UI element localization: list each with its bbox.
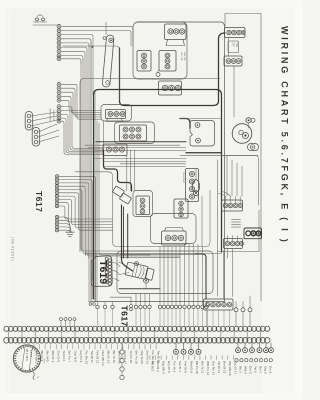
svg-text:Wht Br 4: Wht Br 4 bbox=[51, 351, 55, 363]
connector column D bbox=[55, 175, 58, 208]
terminal block TB2 bbox=[137, 51, 151, 72]
svg-text:Brn Bl 15: Brn Bl 15 bbox=[223, 361, 227, 374]
svg-text:Blu 3: Blu 3 bbox=[238, 366, 242, 373]
motor tab bottom bbox=[248, 144, 259, 151]
svg-text:Org 8: Org 8 bbox=[263, 366, 267, 374]
svg-text:Tan Br 7: Tan Br 7 bbox=[178, 361, 182, 373]
wire bus x97 bbox=[96, 121, 98, 301]
chain top stubs bbox=[60, 318, 77, 327]
svg-text:Yel Bl 2: Yel Bl 2 bbox=[150, 361, 154, 371]
svg-text:Org Wh 16: Org Wh 16 bbox=[228, 361, 232, 376]
wire y147 run bbox=[88, 147, 186, 149]
wire motor drop bbox=[248, 123, 250, 128]
svg-text:Org Ta 20: Org Ta 20 bbox=[140, 351, 144, 364]
svg-text:Pnk Or 8: Pnk Or 8 bbox=[184, 361, 188, 373]
terminal block TB14 bbox=[218, 192, 243, 212]
svg-text:05 1 38 9: 05 1 38 9 bbox=[25, 349, 29, 361]
wire staircase dark bbox=[104, 150, 132, 191]
coil chain row 1 bbox=[4, 326, 270, 331]
svg-text:( 0 8 - 9 1 0 0 1 ): ( 0 8 - 9 1 0 0 1 ) bbox=[11, 237, 15, 261]
connector column C bbox=[57, 105, 61, 123]
svg-text:T617: T617 bbox=[120, 306, 130, 327]
terminal block TB12 bbox=[174, 199, 188, 218]
wire y158 run bbox=[95, 158, 186, 160]
tag T619 outline bbox=[91, 256, 112, 287]
svg-text:Blk Pu 10: Blk Pu 10 bbox=[195, 361, 199, 374]
wire y161 run bbox=[103, 160, 186, 162]
terminal block TB13 bbox=[162, 228, 187, 246]
svg-text:R1B 4TB: R1B 4TB bbox=[183, 52, 185, 61]
label row far right bbox=[238, 366, 272, 374]
svg-text:Gry Gr 17: Gry Gr 17 bbox=[234, 361, 238, 375]
terminal block TB3 bbox=[159, 51, 176, 72]
svg-text:Grn Re 13: Grn Re 13 bbox=[211, 361, 215, 375]
wire dark elbow TB17 bbox=[195, 254, 206, 299]
wire dark into machine bbox=[122, 205, 133, 271]
svg-text:Grn 5: Grn 5 bbox=[248, 366, 252, 374]
connector column A (T617 pins) bbox=[57, 24, 61, 60]
svg-text:Gry Gr 5: Gry Gr 5 bbox=[167, 361, 171, 373]
svg-text:WHITE WIRE: WHITE WIRE bbox=[49, 109, 51, 122]
relay K2 tilted bbox=[119, 193, 131, 204]
machine drain circle bbox=[144, 278, 149, 283]
svg-text:Brn Pu 7: Brn Pu 7 bbox=[68, 351, 72, 363]
module box M3 bbox=[133, 191, 153, 217]
strip terminals row bbox=[96, 302, 208, 309]
relay K1 tilted bbox=[112, 186, 124, 197]
wire bottom collector bbox=[91, 301, 225, 303]
junction dot bbox=[92, 46, 94, 48]
wire y145 run bbox=[85, 144, 180, 146]
motor M big circle bbox=[232, 124, 252, 144]
stamp hook mark bbox=[33, 372, 34, 380]
wire bus x89 bbox=[88, 46, 90, 301]
connector column B bbox=[57, 82, 61, 102]
svg-text:Yel Bl 14: Yel Bl 14 bbox=[217, 361, 221, 373]
wire right cluster bottom bbox=[218, 160, 260, 296]
module box M1 bbox=[101, 105, 132, 122]
terminal block TB4 bbox=[159, 81, 182, 95]
svg-text:Pur Re 10: Pur Re 10 bbox=[84, 351, 88, 365]
terminal block TB1 bbox=[165, 24, 187, 46]
inspection stamp bbox=[13, 345, 40, 372]
wire y150 run bbox=[95, 149, 186, 151]
wire machine drops bbox=[136, 294, 150, 302]
wire y155 run bbox=[180, 155, 259, 205]
wire bus x91 bbox=[90, 42, 92, 301]
svg-text:Tan Bl 11: Tan Bl 11 bbox=[90, 351, 94, 364]
machine assembly tilted bbox=[125, 262, 155, 281]
wire top lead bbox=[33, 24, 57, 26]
svg-text:Org Wh 4: Org Wh 4 bbox=[162, 361, 166, 374]
plug connector P2 bbox=[32, 128, 40, 147]
strip pair x131 bbox=[130, 297, 133, 311]
svg-text:Wht Br 16: Wht Br 16 bbox=[118, 351, 122, 365]
svg-text:Wht Pn 12: Wht Pn 12 bbox=[206, 361, 210, 375]
module box B2 edges bbox=[113, 190, 211, 247]
drawing border frame bbox=[225, 14, 261, 302]
hanging terminals bbox=[174, 343, 274, 354]
chain links bbox=[9, 331, 261, 337]
connector column E bbox=[55, 215, 58, 231]
label tiny rows bbox=[232, 220, 241, 228]
terminal block TB15 dark bbox=[244, 228, 262, 239]
wire y163 run bbox=[120, 163, 186, 165]
wire y155 right bbox=[222, 155, 259, 157]
coil chain row 2 bbox=[4, 338, 270, 344]
svg-text:Red Wh 1: Red Wh 1 bbox=[34, 351, 38, 365]
terminal block TB6 bbox=[224, 56, 242, 66]
wire y118 run bbox=[180, 118, 222, 120]
terminal block TB9 bbox=[103, 144, 127, 156]
wire TB16 drop bbox=[228, 249, 233, 297]
wire y166 run bbox=[104, 166, 186, 168]
solenoid teardrop bbox=[192, 180, 199, 196]
wire M2 drops bbox=[127, 150, 135, 191]
svg-text:Red Wh 13: Red Wh 13 bbox=[101, 351, 105, 366]
wire B2 drops bbox=[160, 247, 180, 302]
svg-text:Red Gr 9: Red Gr 9 bbox=[189, 361, 193, 374]
machine top circle bbox=[135, 262, 139, 266]
terminal block TB10 bbox=[136, 196, 150, 215]
svg-text:Gry Pn 21: Gry Pn 21 bbox=[145, 351, 149, 365]
tag chain circles bbox=[105, 257, 111, 285]
wire top box bus bbox=[137, 22, 225, 302]
wire strap to top bbox=[105, 22, 107, 35]
wire dark x127 bbox=[127, 214, 129, 258]
wire dark y141 bbox=[96, 141, 186, 143]
wire fan from column C bbox=[61, 107, 103, 155]
switch S1 top bbox=[34, 15, 48, 23]
svg-text:Wht 4: Wht 4 bbox=[243, 366, 247, 374]
wire fan from column B bbox=[61, 84, 101, 119]
wire TB5 drop bbox=[120, 33, 226, 106]
wire plug leads bbox=[31, 112, 59, 142]
wire right verticals bbox=[202, 156, 242, 247]
wire TB5-TB6 link bbox=[228, 38, 230, 57]
mounting plate PL1 bbox=[190, 121, 215, 147]
tag lead curves bbox=[112, 262, 121, 281]
fuse strap F1 bbox=[102, 35, 114, 87]
frame inner vertical bbox=[224, 14, 226, 27]
wire right drops bbox=[203, 247, 224, 302]
svg-text:Brn Pu 19: Brn Pu 19 bbox=[134, 351, 138, 365]
wire bus x103 bbox=[103, 121, 105, 150]
motor tab top bbox=[246, 118, 255, 123]
wire into strip bbox=[110, 296, 131, 298]
terminal block TB5 bbox=[225, 28, 246, 38]
svg-text:Org Ta 8: Org Ta 8 bbox=[73, 351, 77, 363]
wire box horiz 1 bbox=[120, 253, 196, 255]
wire dark y152 bbox=[186, 152, 222, 154]
svg-text:T617: T617 bbox=[34, 191, 44, 213]
svg-text:Yel 6: Yel 6 bbox=[253, 366, 257, 373]
wire loop R2 thick bbox=[94, 90, 222, 300]
wire fan column E to ground bbox=[59, 217, 72, 232]
ground symbol bbox=[66, 226, 74, 237]
module box top bbox=[133, 22, 187, 79]
wire teardrop lead bbox=[195, 168, 197, 180]
svg-text:WIRING CHART 5.6.7FGK, E ( I ): WIRING CHART 5.6.7FGK, E ( I ) bbox=[279, 26, 289, 245]
machine lead curves bbox=[119, 262, 130, 275]
fuse box SAF bbox=[228, 41, 239, 53]
module box M2 bbox=[115, 122, 155, 144]
svg-text:Yel Gr 18: Yel Gr 18 bbox=[129, 351, 133, 364]
pilot lamp DS1 bbox=[156, 73, 160, 77]
svg-text:Grn Or 17: Grn Or 17 bbox=[123, 351, 127, 365]
svg-text:SAF: SAF bbox=[232, 43, 235, 48]
terminal block TB7 bbox=[106, 110, 126, 122]
TB17 chain stems bbox=[208, 310, 230, 326]
svg-text:Gry Pn 9: Gry Pn 9 bbox=[79, 351, 83, 363]
wire bus x95 bbox=[94, 92, 96, 301]
wire box horiz 2 bbox=[120, 256, 180, 258]
right drops beyond strip bbox=[234, 296, 252, 326]
wire bus x99 bbox=[99, 123, 150, 255]
wire y171 run bbox=[75, 172, 113, 196]
wire bus x87 bbox=[87, 51, 180, 256]
module box machine bbox=[117, 251, 213, 294]
wire loop R1 bbox=[80, 79, 220, 253]
terminal block TB11 bbox=[186, 169, 199, 202]
label T619 underline bbox=[92, 261, 94, 281]
svg-text:TB4 2TB: TB4 2TB bbox=[180, 52, 182, 61]
svg-text:Pnk Bl 12: Pnk Bl 12 bbox=[95, 351, 99, 364]
wire dark pair bbox=[123, 207, 125, 258]
wire bus x83 bbox=[83, 59, 194, 254]
strip to chain stems bbox=[98, 309, 207, 327]
svg-text:0 4 4 1: 0 4 4 1 bbox=[29, 350, 32, 358]
svg-text:Brn 7: Brn 7 bbox=[258, 366, 262, 374]
hanging string x122 bbox=[120, 343, 124, 380]
terminal block TB17 bbox=[204, 299, 234, 310]
svg-text:Gry 9: Gry 9 bbox=[268, 366, 272, 374]
wire colA x93 drop bbox=[92, 39, 94, 95]
wire fan from column D bbox=[59, 176, 113, 301]
tiny circle row right bbox=[235, 359, 273, 362]
wire B3 drops bbox=[185, 244, 199, 302]
module box B3 bbox=[151, 214, 197, 244]
svg-text:Blu Ye 15: Blu Ye 15 bbox=[112, 351, 116, 364]
wire y46 run bbox=[63, 46, 120, 100]
wire bus x85 bbox=[85, 55, 222, 254]
svg-text:TO MOTOR: TO MOTOR bbox=[52, 110, 54, 122]
svg-text:Pur Ye 6: Pur Ye 6 bbox=[173, 361, 177, 373]
wire machine dark bbox=[119, 288, 160, 290]
strip left end bbox=[89, 302, 96, 306]
wire plate hook dark bbox=[180, 119, 190, 129]
plug connector P1 bbox=[25, 112, 33, 131]
svg-text:Brn Bl 3: Brn Bl 3 bbox=[156, 361, 160, 372]
label row right bbox=[150, 356, 238, 376]
wire TB6 drop bbox=[233, 66, 235, 117]
svg-text:FUE: FUE bbox=[235, 43, 237, 48]
svg-text:Blk Gr 14: Blk Gr 14 bbox=[107, 351, 111, 364]
svg-text:2TB4 B11B: 2TB4 B11B bbox=[182, 172, 184, 183]
svg-text:Blu Ta 11: Blu Ta 11 bbox=[200, 361, 204, 374]
svg-text:Yel Gr 6: Yel Gr 6 bbox=[62, 351, 66, 362]
svg-text:Grn Or 5: Grn Or 5 bbox=[57, 351, 61, 363]
terminal block TB8 bbox=[120, 125, 147, 141]
wire fan from column A bbox=[61, 26, 133, 63]
wire bus x81 bbox=[81, 62, 150, 251]
label row left bbox=[34, 345, 161, 366]
terminal block TB16 bbox=[224, 236, 244, 249]
